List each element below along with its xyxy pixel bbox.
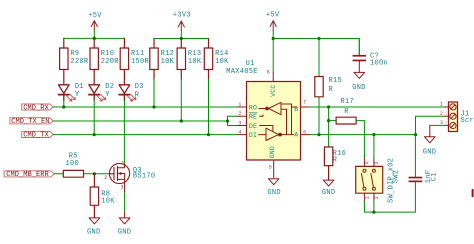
LED D1 [59, 85, 70, 101]
svg-text:5: 5 [269, 164, 272, 170]
svg-text:100: 100 [66, 160, 80, 168]
svg-text:DI: DI [249, 132, 257, 139]
svg-text:220R: 220R [101, 58, 120, 66]
svg-text:D2: D2 [105, 83, 114, 91]
svg-text:CMD_TX_EN: CMD_TX_EN [11, 118, 49, 126]
svg-text:220R: 220R [70, 58, 89, 66]
svg-text:SW2: SW2 [392, 170, 400, 184]
pins 7,6 right [301, 107, 310, 135]
svg-text:Y: Y [75, 91, 80, 99]
svg-text:CMD_TX: CMD_TX [23, 132, 49, 140]
branch B to R17/R16 [328, 107, 330, 147]
resistor R16 [324, 147, 332, 180]
resistor R12 [150, 39, 158, 80]
transistor Q3 BS170 [109, 163, 129, 183]
svg-text:GND: GND [423, 149, 437, 157]
wire row CMD_MB_ERR / R5 [54, 173, 110, 175]
svg-text:RO: RO [249, 105, 257, 112]
LED D2 [89, 85, 100, 101]
U1 internal receiver [259, 102, 282, 134]
svg-text:R11: R11 [131, 50, 145, 58]
svg-text:GND: GND [118, 229, 132, 237]
wire J1 pin2 [416, 116, 445, 134]
pin 5 GND [273, 160, 275, 178]
junction bottom bus [372, 211, 375, 214]
wire +5V left bus [64, 31, 125, 39]
svg-text:10K: 10K [161, 58, 175, 66]
svg-text:Scre: Scre [461, 117, 474, 125]
wire Q3 source to gnd [124, 192, 126, 212]
junction D1/RX [62, 105, 65, 108]
svg-text:+5V: +5V [88, 12, 102, 20]
svg-text:MAX485E: MAX485E [226, 68, 258, 76]
svg-text:DE: DE [249, 123, 257, 130]
ground C7 [354, 72, 365, 78]
svg-text:2: 2 [374, 196, 380, 199]
switch SW2 DIP [356, 166, 383, 193]
LED D3 [119, 85, 130, 101]
svg-text:10K: 10K [101, 198, 115, 206]
resistor R5 [63, 170, 83, 177]
svg-text:CMD_MB_ERR: CMD_MB_ERR [6, 171, 49, 179]
power +5V right [270, 21, 276, 31]
svg-text:6: 6 [303, 130, 306, 136]
svg-text:1: 1 [440, 102, 443, 108]
svg-text:3: 3 [121, 185, 124, 191]
wire +5V right to pin8 and C7 [273, 31, 359, 73]
connector J1 [449, 102, 458, 132]
junction R15 top [317, 37, 320, 40]
resistor R8 [90, 174, 98, 218]
junction R8/gate [93, 172, 96, 175]
svg-text:150R: 150R [131, 58, 150, 66]
svg-text:+3V3: +3V3 [173, 12, 191, 20]
ground U1 [268, 179, 279, 185]
svg-text:R: R [344, 108, 349, 116]
svg-text:U1: U1 [246, 60, 255, 68]
svg-text:7: 7 [303, 100, 306, 106]
svg-text:GND: GND [352, 84, 366, 92]
svg-text:10K: 10K [215, 58, 229, 66]
wire row CMD_RX [53, 79, 237, 107]
power +3V3 [178, 21, 184, 31]
label CMD_TX [22, 131, 54, 137]
svg-text:R13: R13 [188, 50, 202, 58]
resistor R14 [204, 39, 212, 80]
resistor R11 [120, 38, 128, 84]
svg-text:RE: RE [249, 114, 257, 121]
junction R13/EN [180, 119, 183, 122]
wire +3V3 bus [154, 31, 209, 39]
svg-text:C1: C1 [430, 172, 438, 181]
wire D3 to Q3 drain [123, 101, 125, 164]
wire SW2 right to A [373, 135, 375, 159]
svg-text:R: R [329, 86, 334, 94]
svg-text:10K: 10K [188, 58, 202, 66]
svg-text:GND: GND [322, 189, 336, 197]
svg-text:1: 1 [238, 102, 241, 108]
svg-text:+5V: +5V [266, 12, 280, 20]
wire SW2 bottom bus [364, 182, 415, 212]
wire J1 pin3 to gnd [430, 124, 445, 126]
svg-text:D1: D1 [75, 83, 84, 91]
svg-text:R15: R15 [329, 77, 343, 85]
right edge clipped mark [472, 190, 474, 196]
svg-text:R12: R12 [161, 50, 175, 58]
IC U1 MAX485E body [247, 82, 301, 161]
junction R12/RX [152, 105, 155, 108]
svg-text:2: 2 [238, 111, 241, 117]
junction A/J1-C1 [414, 133, 417, 136]
resistor R13 [177, 39, 185, 80]
svg-text:2: 2 [440, 111, 443, 117]
wire B row [310, 106, 445, 108]
label CMD_MB_ERR [4, 171, 54, 177]
resistor R10 [90, 38, 98, 84]
ground Q3 [119, 183, 130, 224]
junction +5V/pin8 [272, 37, 275, 40]
resistor R17 [329, 117, 365, 158]
svg-text:4: 4 [365, 161, 371, 164]
junction A/R15 [317, 133, 320, 136]
wire row CMD_TX_EN [53, 79, 237, 126]
ground J1 [425, 125, 436, 142]
junction D2/TX [93, 133, 96, 136]
svg-text:GND: GND [267, 189, 281, 197]
junction B/R17 branch [327, 105, 330, 108]
svg-text:2: 2 [104, 175, 107, 181]
svg-text:GND: GND [87, 229, 101, 237]
svg-text:3: 3 [238, 120, 241, 126]
svg-text:1: 1 [365, 196, 371, 199]
resistor R15 [315, 39, 323, 135]
junction R14/TX [207, 133, 210, 136]
svg-text:VCC: VCC [270, 84, 277, 96]
junction +3V3 bus [180, 37, 183, 40]
svg-text:R10: R10 [101, 50, 115, 58]
label CMD_RX [22, 104, 54, 110]
svg-text:3: 3 [440, 120, 443, 126]
svg-text:BS170: BS170 [133, 173, 156, 181]
svg-text:R: R [333, 157, 338, 165]
svg-text:D3: D3 [135, 83, 144, 91]
svg-text:R9: R9 [70, 50, 79, 58]
svg-text:4: 4 [238, 129, 241, 135]
svg-text:A: A [294, 132, 298, 139]
capacitor C1 [409, 135, 423, 183]
junction R17 left [327, 119, 330, 122]
svg-text:GND: GND [269, 146, 276, 158]
label CMD_TX_EN [10, 118, 53, 124]
svg-text:1: 1 [121, 161, 124, 167]
ground R8 [89, 218, 100, 224]
resistor R9 [60, 38, 68, 84]
svg-text:3: 3 [374, 161, 380, 164]
svg-text:R17: R17 [341, 98, 355, 106]
wire A row [310, 134, 416, 136]
wire row CMD_TX [53, 79, 237, 135]
junction A/SW2 [372, 133, 375, 136]
U1 internal driver [266, 104, 297, 141]
svg-text:100n: 100n [370, 60, 388, 68]
svg-text:Y: Y [105, 91, 110, 99]
junction +5V bus [93, 37, 96, 40]
svg-text:CMD_RX: CMD_RX [23, 104, 49, 112]
svg-text:R: R [135, 91, 140, 99]
pin 8 VCC [272, 72, 274, 81]
svg-text:R14: R14 [215, 50, 229, 58]
capacitor C7 [353, 39, 366, 73]
ground R16 [323, 180, 334, 186]
svg-text:8: 8 [267, 70, 270, 76]
pins 1-4 left [237, 107, 246, 135]
power +5V left [91, 21, 97, 31]
junction EN stub [226, 119, 229, 122]
